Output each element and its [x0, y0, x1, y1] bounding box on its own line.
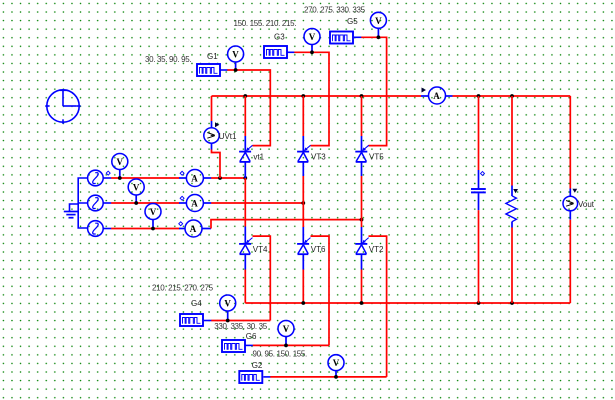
svg-text:G4: G4	[191, 299, 202, 308]
node bus / VT3	[301, 94, 305, 98]
node DC- / VT2	[360, 301, 364, 305]
wire neutral bus (blue)	[78, 178, 88, 228]
node DC- / VT6	[301, 301, 305, 305]
svg-text:G2: G2	[252, 361, 263, 370]
wire capacitor branch lower	[478, 210, 480, 303]
voltmeter V G4	[220, 295, 236, 321]
node DC- / resistor	[510, 301, 514, 305]
svg-text:V: V	[333, 358, 340, 368]
polarity arrow UVt1	[215, 122, 219, 127]
voltmeter V phase B	[128, 179, 144, 203]
svg-text:210. 215. 270. 275: 210. 215. 270. 275	[152, 284, 214, 293]
svg-text:VT6: VT6	[311, 245, 326, 254]
svg-text:G6: G6	[246, 332, 257, 341]
voltmeter V phase C	[145, 204, 161, 229]
thyristor VT5	[355, 136, 368, 176]
wire G1 to vt1 gate	[227, 70, 270, 146]
pulse generator G2	[239, 371, 270, 383]
svg-text:V: V	[232, 50, 239, 60]
wire vt1 anode column	[244, 96, 246, 136]
svg-text:VT2: VT2	[369, 245, 384, 254]
wire DC+ bus	[212, 95, 422, 97]
thyristor VT6	[297, 227, 310, 270]
wire VT3 to VT6	[302, 176, 304, 227]
wire UVt1 upper	[211, 96, 213, 121]
thyristor vt1	[239, 136, 252, 178]
wire VT4 gate	[253, 236, 271, 320]
svg-text:90. 95. 150. 155.: 90. 95. 150. 155.	[253, 350, 308, 359]
node bus / VT5	[360, 94, 364, 98]
node phase B / VT3 column	[301, 201, 305, 205]
pulse generator G6	[222, 340, 253, 352]
svg-text:30. 35. 90. 95.: 30. 35. 90. 95.	[145, 55, 191, 64]
pulse generator G1	[197, 64, 228, 76]
svg-text:VT3: VT3	[311, 153, 326, 162]
ammeter A phase B	[179, 195, 211, 212]
source V3 phase C	[88, 221, 112, 237]
wire phase B to bridge	[211, 202, 303, 204]
wire phase C to bridge	[211, 220, 362, 229]
clock timer symbol	[45, 90, 80, 124]
node phase C / VT5 column	[360, 218, 364, 222]
svg-text:A: A	[191, 199, 198, 209]
thyristor VT4	[239, 227, 252, 270]
wire phase A to bridge	[211, 177, 245, 179]
node G6 / V junction	[284, 344, 288, 348]
wire VT5 anode column	[361, 96, 363, 136]
wire G5 to VT5 gate	[361, 37, 386, 145]
node G1 / V junction	[234, 68, 238, 72]
svg-text:UVt1: UVt1	[219, 132, 237, 141]
svg-text:vt1: vt1	[253, 153, 264, 162]
wire G3 to VT3 gate	[294, 52, 329, 145]
node G3 / V junction	[310, 50, 314, 54]
ammeter A phase A	[179, 170, 211, 187]
svg-text:A: A	[190, 224, 197, 234]
pulse generator G5	[330, 32, 362, 44]
svg-text:V: V	[283, 324, 290, 334]
node G5 / V junction	[377, 35, 381, 39]
wire VT5 to VT2	[361, 176, 363, 227]
node G2 / V junction	[334, 375, 338, 379]
svg-text:V: V	[133, 183, 140, 193]
wire phase A	[111, 177, 179, 179]
wire VT6 to DC- bus	[302, 270, 304, 304]
node bus / vt1	[243, 94, 247, 98]
probe Vout	[563, 189, 578, 220]
polarity arrow DC ammeter	[422, 88, 427, 93]
wire phase A to VT4	[244, 178, 246, 227]
node phase A / vt1 column	[243, 176, 247, 180]
wire resistor branch lower	[511, 228, 513, 304]
svg-text:VT4: VT4	[253, 245, 268, 254]
wire G2 to VT2 gate column	[270, 376, 386, 378]
wire VT3 anode column	[302, 96, 304, 136]
wire G6 to VT6 gate column	[253, 344, 329, 346]
svg-text:G3: G3	[274, 33, 285, 42]
svg-text:A: A	[191, 174, 198, 184]
ammeter A phase C	[179, 220, 211, 237]
wire VT2 to DC- bus	[361, 270, 363, 304]
voltmeter V phase A	[112, 154, 128, 179]
svg-text:G1: G1	[207, 52, 218, 61]
polarity mark capacitor	[481, 172, 485, 176]
resistor R load	[506, 186, 517, 228]
ground	[64, 204, 78, 218]
wire phase B	[111, 202, 179, 204]
wire VT4 cathode to DC- bus	[244, 270, 246, 304]
thyristor VT2	[355, 227, 368, 270]
polarity mark ammeter A1	[180, 171, 184, 175]
svg-text:G5: G5	[347, 17, 358, 26]
node UVt1 tap	[218, 176, 222, 180]
svg-text:V: V	[150, 207, 157, 217]
voltmeter V G1	[228, 46, 244, 70]
svg-text:150. 155. 210. 215.: 150. 155. 210. 215.	[234, 19, 297, 28]
wire VT6 gate	[311, 236, 330, 345]
source V1 phase A	[88, 170, 112, 186]
svg-text:V: V	[309, 32, 316, 42]
svg-text:V: V	[375, 16, 382, 26]
svg-text:V: V	[117, 157, 124, 167]
wire resistor branch upper	[511, 96, 513, 186]
node phase C / V-meter junction	[151, 227, 155, 231]
voltmeter V G5	[370, 12, 386, 37]
capacitor C	[471, 170, 486, 210]
wire VT2 gate	[369, 236, 387, 377]
source V2 phase B	[88, 195, 112, 211]
wire UVt1 lower	[212, 150, 221, 179]
probe UVt1	[204, 121, 219, 150]
ammeter A DC bus	[421, 87, 453, 104]
svg-text:Vout: Vout	[578, 200, 595, 209]
node DC- / capacitor	[477, 301, 481, 305]
wire capacitor branch upper	[478, 96, 480, 170]
svg-text:A: A	[433, 91, 440, 101]
node bus / capacitor	[477, 94, 481, 98]
voltmeter V G3	[304, 29, 320, 53]
voltmeter V G2	[328, 355, 344, 377]
pulse generator G3	[264, 46, 295, 58]
node phase B / V-meter junction	[134, 201, 138, 205]
svg-text:330. 335. 30. 35: 330. 335. 30. 35	[214, 322, 267, 331]
svg-text:VT5: VT5	[369, 153, 384, 162]
polarity mark ammeter A3	[179, 222, 183, 226]
polarity mark source V1	[106, 171, 110, 175]
node phase A / V-meter junction	[118, 176, 122, 180]
node G4 / V junction	[226, 319, 230, 323]
polarity mark ammeter A2	[180, 196, 184, 200]
polarity arrow Vout	[572, 189, 577, 193]
wire DC- bus	[245, 302, 570, 304]
voltmeter V G6	[278, 321, 294, 346]
node bus / resistor	[510, 94, 514, 98]
svg-text:270. 275. 330. 335: 270. 275. 330. 335	[304, 6, 366, 15]
polarity arrow resistor	[513, 189, 518, 193]
wire Vout branch upper	[569, 96, 571, 189]
svg-text:V: V	[224, 299, 231, 309]
wire DC+ bus right	[453, 95, 571, 97]
wire Vout branch lower	[569, 220, 571, 303]
wire phase C	[111, 228, 179, 230]
thyristor VT3	[297, 136, 310, 176]
wire G4 to VT4 gate column	[211, 320, 270, 322]
pulse generator G4	[180, 314, 212, 326]
